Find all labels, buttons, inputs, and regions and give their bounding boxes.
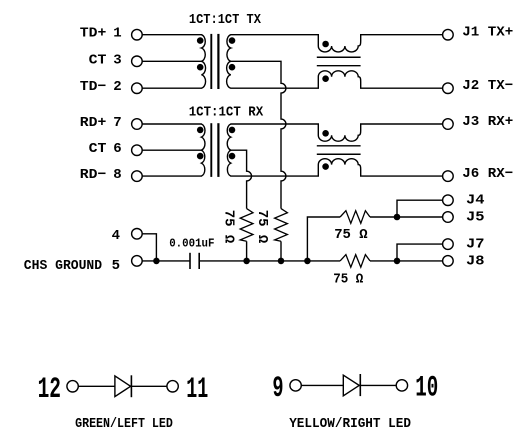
svg-text:RD+: RD+ [80, 115, 107, 131]
svg-text:11: 11 [186, 373, 208, 407]
transformer T2 (RX) core [211, 123, 218, 177]
wire pin 4 branch [142, 234, 156, 261]
wire pin 5 to capacitor [142, 260, 190, 262]
pin circle J3 [443, 119, 454, 130]
pin circle J4 [443, 195, 454, 206]
pin circle J8 [443, 256, 454, 267]
wire T1 secondary center-tap to resistor (with hops) [231, 61, 286, 208]
pin circle J2 [443, 83, 454, 94]
transformer T1 (TX) secondary winding [227, 35, 231, 88]
choke L2 (RX) bottom winding [231, 159, 443, 176]
wire pin RD- (8) to transformer [142, 175, 202, 177]
pin circle J1 [443, 29, 454, 40]
transformer T2 (RX) primary polarity dots [197, 127, 204, 160]
svg-text:0.001uF: 0.001uF [169, 237, 214, 251]
choke L1 (TX) top winding [231, 35, 443, 52]
svg-text:J7: J7 [466, 237, 485, 253]
pin circle RD+ (7) [132, 119, 143, 130]
transformer T2 (RX) primary winding [201, 124, 205, 176]
svg-text:75 Ω: 75 Ω [333, 271, 364, 287]
svg-text:RD−: RD− [80, 167, 107, 183]
svg-text:12: 12 [38, 373, 61, 407]
green LED diode symbol [115, 375, 131, 397]
svg-text:75 Ω: 75 Ω [334, 227, 368, 243]
svg-text:J3 RX+: J3 RX+ [462, 114, 513, 130]
wire resistor to ground bus [246, 241, 248, 261]
choke L2 (RX) core [317, 146, 361, 154]
svg-text:TD−: TD− [80, 79, 107, 95]
svg-text:10: 10 [415, 372, 438, 406]
wire branch to J4 [397, 200, 443, 217]
svg-text:GREEN/LEFT LED: GREEN/LEFT LED [75, 417, 173, 432]
choke L2 (RX) top winding [231, 124, 443, 141]
resistor 75ohm (TX CT termination) [275, 209, 288, 242]
resistor 75ohm (J7/J8) [340, 255, 370, 268]
choke L2 (RX) bottom polarity dot [322, 163, 329, 170]
svg-text:J1 TX+: J1 TX+ [462, 25, 513, 41]
LED pin circle 10 [396, 380, 407, 391]
resistor 75ohm (J4/J5) [340, 211, 370, 224]
svg-text:CT: CT [89, 52, 107, 68]
junction J7 branch [394, 258, 401, 265]
pin circle RD- (8) [132, 171, 143, 182]
wire pin RD+ (7) to transformer [142, 123, 202, 125]
svg-text:CHS GROUND: CHS GROUND [24, 258, 102, 274]
wire resistor to J5 [370, 216, 443, 218]
pin circle 4 [132, 229, 143, 240]
svg-text:2: 2 [113, 79, 121, 95]
svg-text:8: 8 [113, 167, 121, 183]
wire pin CT (3) to transformer [142, 60, 202, 62]
wire resistor to ground bus [280, 241, 282, 261]
LED pin circle 12 [67, 381, 78, 392]
junction pin4/pin5 node [153, 258, 160, 265]
capacitor 0.001uF plates [190, 253, 199, 269]
wire yellow LED cathode to 10 [360, 384, 396, 386]
svg-text:75 Ω: 75 Ω [254, 210, 270, 244]
svg-text:75 Ω: 75 Ω [220, 210, 236, 244]
choke L1 (TX) top polarity dot [322, 41, 329, 48]
svg-text:J8: J8 [466, 253, 485, 269]
pin circle CT (6) [132, 145, 143, 156]
svg-text:J6 RX−: J6 RX− [462, 166, 513, 182]
resistor 75ohm (RX CT termination) [240, 209, 253, 242]
transformer T1 (TX) primary polarity dots [197, 37, 204, 70]
svg-text:6: 6 [113, 141, 121, 157]
pin circle TD- (2) [132, 83, 143, 94]
wire ground bus capacitor to J8 resistor [199, 260, 340, 262]
choke L1 (TX) bottom polarity dot [322, 75, 329, 82]
pin circle CT (3) [132, 56, 143, 67]
junction resistor RX / bus [243, 258, 250, 265]
LED pin circle 9 [290, 380, 301, 391]
svg-text:1CT:1CT TX: 1CT:1CT TX [189, 13, 262, 28]
pin circle J5 [443, 212, 454, 223]
svg-text:1: 1 [113, 26, 121, 42]
pin circle 5 (CHS GROUND) [132, 256, 143, 267]
transformer T2 (RX) secondary winding [227, 124, 231, 176]
wire green LED cathode to 11 [131, 385, 167, 387]
pin circle J6 [443, 171, 454, 182]
transformer T2 (RX) secondary polarity dots [229, 127, 236, 160]
svg-text:J5: J5 [466, 209, 485, 225]
svg-text:J2 TX−: J2 TX− [462, 78, 513, 94]
svg-text:7: 7 [113, 115, 121, 131]
svg-text:4: 4 [112, 228, 120, 244]
wire branch to J4/J5 resistor [307, 217, 340, 261]
transformer T1 (TX) secondary polarity dots [229, 37, 236, 70]
pin circle TD+ (1) [132, 29, 143, 40]
yellow LED diode symbol [343, 374, 360, 396]
choke L1 (TX) core [317, 57, 361, 65]
svg-text:YELLOW/RIGHT LED: YELLOW/RIGHT LED [289, 417, 411, 432]
pin circle J7 [443, 239, 454, 250]
choke L1 (TX) bottom winding [231, 71, 443, 88]
LED pin circle 11 [167, 381, 178, 392]
svg-text:3: 3 [113, 52, 121, 68]
choke L2 (RX) top polarity dot [322, 130, 329, 137]
svg-text:CT: CT [89, 141, 107, 157]
svg-text:5: 5 [112, 258, 120, 274]
junction bus / upper-resistor branch [304, 258, 311, 265]
svg-text:1CT:1CT RX: 1CT:1CT RX [189, 106, 264, 121]
wire resistor to J8 [370, 260, 443, 262]
wire T2 secondary center-tap to resistor (with hop) [231, 150, 252, 208]
transformer T1 (TX) core [211, 34, 218, 89]
junction resistor TX / bus [278, 258, 285, 265]
junction J4 branch [394, 214, 401, 221]
wire pin CT (6) to transformer [142, 149, 202, 151]
wire pin TD- (2) to transformer [142, 87, 202, 89]
svg-text:9: 9 [272, 372, 283, 406]
wire 9 to yellow LED anode [301, 384, 343, 386]
svg-text:J4: J4 [466, 193, 485, 209]
wire branch to J7 [397, 244, 443, 261]
wire pin TD+ (1) to transformer [142, 34, 202, 36]
wire 12 to green LED anode [78, 385, 115, 387]
transformer T1 (TX) primary winding [201, 35, 205, 88]
svg-text:TD+: TD+ [80, 26, 107, 42]
